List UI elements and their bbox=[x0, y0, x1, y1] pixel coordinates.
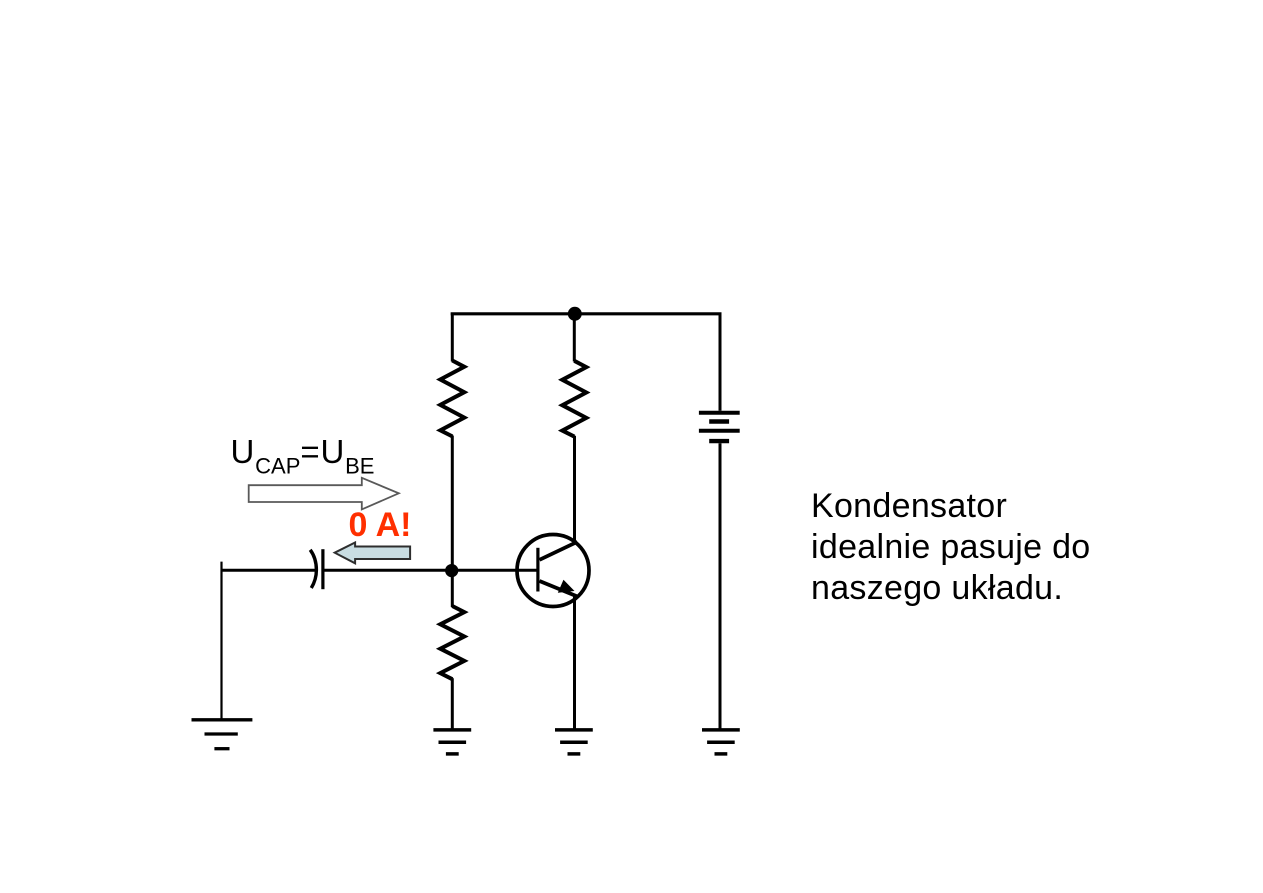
wire R2 top (node to zigzag) bbox=[451, 570, 454, 607]
transistor Q1 collector diagonal bbox=[540, 542, 578, 560]
wire node to base bbox=[452, 569, 538, 572]
ground input (large) bbox=[192, 718, 253, 721]
wire R1 bottom to node bbox=[451, 436, 454, 572]
battery B1 bbox=[699, 411, 740, 415]
ground emitter bbox=[555, 728, 593, 732]
wire capacitor to node bbox=[324, 569, 452, 572]
label 0 A! bbox=[349, 508, 412, 542]
resistor R2 bbox=[440, 606, 464, 679]
wire battery bottom bbox=[719, 443, 722, 728]
wire collector bbox=[573, 436, 576, 543]
wire battery top bbox=[719, 313, 722, 411]
wire R2 bottom bbox=[451, 678, 454, 728]
wire top rail bbox=[451, 312, 722, 315]
capacitor C1 straight plate bbox=[321, 549, 324, 589]
resistor R3 bbox=[562, 361, 586, 437]
transistor Q1 emitter arrow bbox=[558, 580, 575, 593]
capacitor C1 curved plate bbox=[310, 550, 316, 588]
note Kondensator bbox=[811, 486, 1091, 610]
ground battery bbox=[702, 728, 740, 732]
transistor Q1 base bar bbox=[536, 548, 539, 592]
label UCAP=UBE bbox=[231, 435, 375, 483]
resistor R1 bbox=[440, 361, 464, 437]
arrow 0A (blue left) bbox=[335, 543, 410, 564]
wire emitter bbox=[573, 595, 576, 729]
ground R2 bbox=[433, 728, 471, 732]
wire R3 top bbox=[573, 313, 576, 362]
transistor Q1 emitter diagonal bbox=[540, 581, 577, 596]
wire R1 top bbox=[451, 313, 454, 362]
arrow UCAP (hollow right) bbox=[249, 478, 399, 510]
wire input to capacitor bbox=[221, 569, 316, 572]
node base junction bbox=[445, 564, 458, 577]
wire input terminal vertical bbox=[220, 562, 222, 719]
node top junction bbox=[568, 307, 582, 321]
transistor Q1 circle bbox=[517, 535, 589, 607]
